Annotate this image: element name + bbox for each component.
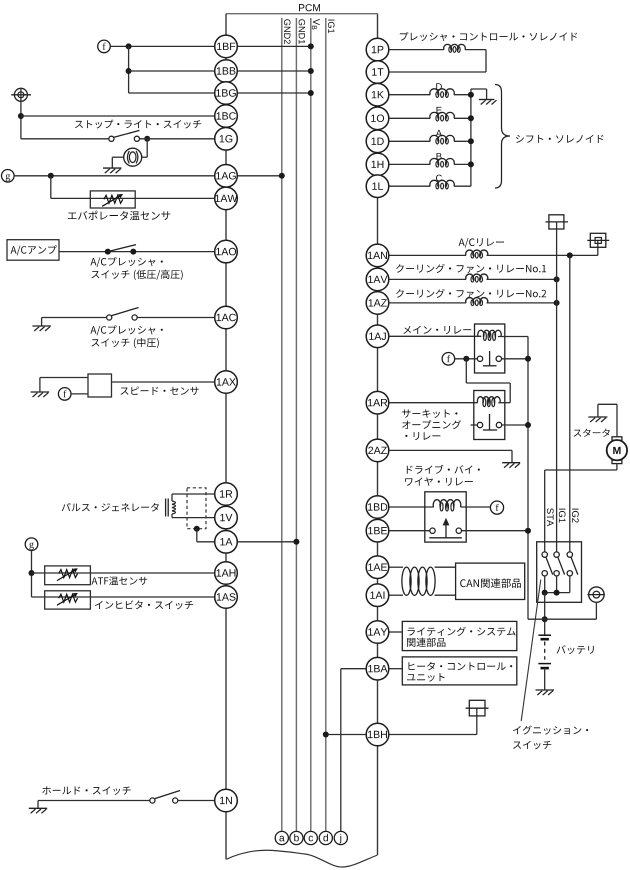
ignition switch common bus [545, 592, 570, 594]
battery positive terminal symbol [589, 587, 604, 602]
wire terminal down to 1BC/1G branch [20, 88, 22, 139]
junction on 1AG wire [48, 173, 54, 179]
junction battery plus node [542, 616, 548, 622]
inhibitor switch element [59, 594, 78, 602]
terminal 1BE [366, 519, 389, 542]
stop light switch contact right [134, 136, 139, 141]
label circuit opening relay line2 [402, 420, 461, 429]
label battery [557, 645, 594, 654]
battery cell 2 short plate [541, 667, 549, 670]
terminal 1AY [366, 621, 389, 644]
wire down to stop lamp [146, 139, 148, 157]
label cooling fan relay No.2 [396, 289, 546, 298]
circuit opening relay box [474, 391, 505, 440]
shift solenoid common wire [470, 89, 472, 186]
wire 1AI to twisted pair [389, 594, 403, 596]
terminal 1AJ [366, 325, 389, 348]
pressure control solenoid coil [444, 44, 466, 49]
terminal 1AC [215, 306, 238, 329]
bus label GND2 [284, 19, 291, 44]
A/C amplifier box [7, 240, 59, 261]
label circuit opening relay line1 [402, 409, 457, 418]
wire starter to STA [616, 464, 618, 470]
mid pressure switch blade (open) [111, 308, 138, 316]
DBW relay contact left [430, 528, 435, 533]
solenoid letter E [437, 107, 442, 114]
wire battery node horizontal [528, 618, 596, 620]
A/C relay coil [466, 250, 488, 255]
wire 1BA left branch to j [341, 668, 366, 670]
wire branch down to evaporator sensor [50, 176, 52, 199]
label starter [574, 429, 610, 437]
terminal 1AV [366, 268, 389, 291]
connector c [304, 831, 317, 844]
ignition switch blade [571, 557, 578, 574]
ground at starter [597, 404, 599, 417]
ATF temp sensor element [59, 570, 78, 578]
pulse generator shield (dashed) [187, 488, 206, 529]
wire battery to ground [544, 668, 546, 690]
label lighting line2 [407, 638, 445, 647]
wire 1BE to contact [389, 530, 430, 532]
wire ground to sensor box [40, 377, 88, 379]
label speed sensor [121, 386, 199, 395]
label STA [547, 508, 554, 526]
wire coil to f branch [498, 402, 510, 404]
speed sensor box [88, 374, 112, 397]
wire coil to f [461, 506, 491, 508]
terminal 1BD [366, 496, 389, 519]
shift solenoid coil C [430, 180, 454, 186]
terminal 1V [215, 506, 238, 529]
connector f at DBW relay [490, 501, 503, 514]
ignition switch pole top [554, 552, 559, 557]
pointer line to ignition switch [521, 580, 541, 721]
label pressure control solenoid [400, 32, 577, 41]
wire ground to hold switch [38, 800, 150, 802]
wire shift solenoid E [389, 117, 430, 119]
junction main relay-528 [525, 356, 531, 362]
ignition switch blade [558, 557, 565, 574]
circuit opening relay armature [489, 414, 491, 430]
wire contact to battery line [502, 358, 529, 360]
pulse generator coil [172, 501, 176, 514]
brace shift solenoid group [495, 85, 510, 189]
terminal 1BB [215, 60, 238, 83]
evaporator temp sensor box [90, 191, 135, 208]
wire to 1BB [129, 70, 215, 72]
label IG2 (switch) [572, 509, 579, 523]
wire pair to CAN box bottom [435, 594, 456, 596]
mid pressure switch contact left [107, 315, 112, 320]
battery cell 1 short plate [541, 638, 549, 641]
connector g (top) [2, 170, 15, 183]
label inhibitor switch [95, 600, 193, 609]
wire 1AV to cooling fan relay No.1 coil [389, 278, 466, 280]
wire 1AN to A/C relay coil [389, 254, 466, 256]
wire shift solenoid C [389, 185, 430, 187]
bus label GND1 [299, 19, 306, 44]
terminal 1BH [366, 723, 389, 746]
junction shift common [468, 161, 474, 167]
wire 1AG to GND2 bus [237, 175, 281, 177]
mid pressure switch contact right [132, 315, 137, 320]
terminal 1BF [215, 35, 238, 58]
circuit opening relay contact left [477, 422, 482, 427]
terminal 1BG [215, 82, 238, 105]
battery cell 1 long plate [538, 634, 551, 636]
label IG1 (switch) [559, 509, 566, 523]
ignition switch blade [546, 557, 553, 574]
label ignition switch line1 [513, 725, 588, 734]
terminal 1R [215, 483, 238, 506]
PCM module outline left edge [225, 14, 227, 860]
wire IG1 vertical [556, 222, 558, 552]
junction DBW-528 [525, 528, 531, 534]
wire ground to switch [42, 317, 107, 319]
connector (double square) battery feed [590, 233, 606, 247]
wire ground to starter motor [598, 403, 617, 405]
heater control unit box [402, 657, 517, 685]
PCM torn bottom edge (wavy cut line) [226, 850, 377, 867]
label A/C pressure switch line1 [90, 257, 162, 267]
bus label VB [312, 19, 320, 30]
wire contact to battery line [462, 530, 529, 532]
terminal 1AW [215, 187, 238, 210]
wire switch to 1N [178, 800, 215, 802]
wire 1BG to VB bus [237, 92, 310, 94]
wire switch to 1G [140, 138, 215, 140]
junction 1AG-GND2 [279, 173, 285, 179]
terminal 1AG [215, 165, 238, 188]
terminal 1G [215, 128, 238, 151]
bus line VB [310, 18, 312, 832]
terminal 1N [215, 789, 238, 812]
wire sensor to 1AX [112, 381, 215, 383]
label drive by wire relay line2 [405, 477, 473, 485]
wire to inhibitor switch box [32, 596, 215, 598]
wire branch down to 1BB/1BG [128, 46, 130, 93]
junction CO relay-528 [525, 422, 531, 428]
wire 2AZ to ground [389, 449, 512, 451]
wire terminal symbol to battery node [595, 602, 597, 619]
stop light switch blade (open) [114, 130, 140, 137]
hold switch contact right [173, 798, 178, 803]
main relay contact right [496, 356, 501, 361]
label stop light switch [75, 120, 201, 129]
main relay armature [489, 351, 491, 366]
label heater line1 [408, 662, 512, 671]
wire 1AR to circuit opening relay coil [389, 402, 478, 404]
ground at battery [536, 689, 555, 691]
junction at 1BC row [18, 113, 24, 119]
wire coil to battery line [498, 336, 528, 338]
wire 1BB to VB bus [237, 70, 310, 72]
wire shift solenoid D [389, 94, 430, 96]
terminal 1BC [215, 105, 238, 128]
wire A/C relay to IG2 node [487, 254, 598, 256]
label mid pressure switch line2 [91, 338, 158, 348]
A/C pressure switch (low/high) closed contacts [105, 249, 111, 255]
battery plus terminal symbol (double circle cross) [14, 88, 27, 101]
wire 1AE to twisted pair [389, 566, 403, 568]
wire g to 1AG [14, 175, 215, 177]
stop light switch contact left [109, 136, 114, 141]
ground at stop lamp [103, 167, 122, 169]
connector (square) ignition feed [549, 215, 564, 229]
terminal 1A [215, 531, 238, 554]
terminal 1AE [366, 556, 389, 579]
label heater line2 [407, 673, 445, 681]
junction f branch [463, 356, 469, 362]
wire to IG1 line [487, 302, 557, 304]
hold switch blade (open) [154, 791, 180, 799]
DBW relay arrow armature [445, 525, 447, 538]
connector (square) at 1BH [469, 700, 485, 716]
starter motor brush top [612, 437, 622, 441]
terminal 1AI [366, 584, 389, 607]
solenoid letter A [436, 130, 442, 137]
inhibitor switch box [45, 591, 91, 609]
wire STA vertical [544, 470, 546, 552]
label ignition switch line2 [513, 741, 551, 750]
junction 1BF-VB [308, 43, 314, 49]
shift solenoid coil B [430, 159, 454, 165]
wire to ATF sensor box [32, 572, 215, 574]
junction shift common [468, 115, 474, 121]
terminal 1AZ [366, 292, 389, 315]
wire 1P to coil [389, 49, 444, 51]
wire switch common to battery [544, 593, 546, 620]
terminal 1K [366, 83, 389, 106]
wire to IG1 line [487, 278, 557, 280]
label lighting line1 [408, 627, 516, 636]
ATF temp sensor box [45, 566, 91, 585]
junction after switch [144, 136, 150, 142]
terminal 2AZ [366, 439, 389, 462]
connector f at speed sensor [58, 388, 71, 401]
terminal 1AX [215, 371, 238, 394]
wire to 1BC [21, 115, 215, 117]
PCM module outline top edge [226, 13, 378, 15]
ignition switch pole bottom [567, 571, 572, 576]
connector a [275, 831, 288, 844]
bus line GND2 [281, 18, 283, 832]
wire g down to sensors [31, 551, 33, 598]
PCM label [299, 4, 320, 11]
terminal 1H [366, 153, 389, 176]
bus line GND1 [295, 18, 297, 832]
terminal 1AN [366, 244, 389, 267]
connector f (top left) [98, 40, 111, 53]
terminal 1P [366, 38, 389, 61]
circuit opening relay contact right [496, 422, 501, 427]
wire pair to CAN box top [435, 566, 456, 568]
label A/C pressure switch line2 [91, 270, 182, 280]
main relay box [475, 324, 505, 373]
label CAN related parts [460, 578, 521, 588]
junction on 1BB wire [126, 68, 132, 74]
label evaporator temp sensor [68, 211, 170, 220]
bus label IG1 [328, 20, 335, 34]
stub contact left [471, 424, 478, 426]
label A/C relay [459, 238, 504, 248]
wire A/C amp to switch [59, 251, 215, 253]
wire f to contact [455, 358, 478, 360]
terminal 1D [366, 130, 389, 153]
junction 1BG-VB [308, 90, 314, 96]
wire to 1BG [129, 92, 215, 94]
solenoid letter D [436, 83, 442, 90]
junction 1BB-VB [308, 68, 314, 74]
hold switch contact left [150, 798, 155, 803]
terminal 1AH [215, 562, 238, 585]
ignition switch pole bottom [554, 571, 559, 576]
drive by wire relay box [425, 492, 466, 542]
ignition switch pole stub [556, 576, 558, 593]
wire 1AZ to cooling fan relay No.2 coil [389, 302, 466, 304]
wire shift solenoid B [389, 163, 430, 165]
ignition switch box [537, 542, 582, 603]
wire coil top to 1R [171, 494, 173, 501]
connector g (lower) [25, 538, 38, 551]
ignition switch pole top [567, 552, 572, 557]
junction at ATF row [29, 570, 35, 576]
circuit opening relay coil [477, 397, 500, 403]
A/C pressure switch blade [108, 245, 136, 252]
ignition switch pole stub [569, 576, 571, 593]
shift solenoid coil D [430, 89, 454, 95]
wire shift solenoid A [389, 140, 430, 142]
terminal 1L [366, 175, 389, 198]
junction IG1-AZ [554, 300, 560, 306]
ground at mid pressure switch [41, 318, 43, 327]
junction 1A-GND1 [293, 539, 299, 545]
starter motor [607, 440, 627, 460]
battery feed line (528) [527, 337, 529, 620]
connector d [319, 831, 332, 844]
wire 1AY to lighting box [389, 631, 403, 633]
terminal 1BA [366, 657, 389, 680]
junction IG1-AV [554, 276, 560, 282]
junction shift common [468, 138, 474, 144]
label main relay [403, 326, 471, 334]
wire up to battery connector [597, 240, 599, 255]
label hold switch [42, 786, 130, 795]
wire contact to battery line [502, 424, 528, 426]
connector j [334, 831, 347, 844]
wire shield to 1A [196, 529, 198, 542]
cooling fan relay No.2 coil [466, 298, 488, 303]
wire IG2 vertical [569, 255, 571, 552]
wire lamp to ground [112, 156, 123, 158]
solenoid letter B [437, 153, 442, 160]
solenoid letter C [436, 175, 442, 182]
wire 1BD to DBW relay coil [389, 506, 434, 508]
ground at hold switch [37, 801, 39, 809]
lighting system related parts box [402, 621, 517, 650]
junction 1BH-IG1 [323, 732, 329, 738]
wire f branch to circuit opening coil [465, 359, 467, 383]
wire 1AJ to main relay [389, 335, 482, 337]
ground at 2AZ [502, 462, 520, 464]
terminal 1T [366, 61, 389, 84]
main relay contact left [477, 356, 482, 361]
terminal 1O [366, 107, 389, 130]
wire 1BF to VB bus [237, 45, 310, 47]
drive by wire relay coil [433, 500, 461, 507]
wire 1BA branch down to connector j [340, 669, 342, 832]
battery dashed middle [544, 642, 546, 660]
junction shift common [468, 92, 474, 98]
cooling fan relay No.1 coil [466, 274, 488, 279]
label shift solenoid [516, 135, 604, 143]
label circuit opening relay line3 [405, 432, 440, 440]
evaporator temp sensor element [104, 195, 123, 203]
ignition switch pole top [542, 552, 547, 557]
ignition switch pole bottom [542, 571, 547, 576]
stop lamp bulb [124, 148, 142, 166]
label cooling fan relay No.1 [396, 264, 546, 273]
connector b [290, 831, 303, 844]
wire 1BH to IG1 bus [326, 734, 366, 736]
wire battery node down [544, 619, 546, 635]
connector f at main relay [442, 353, 455, 366]
label drive by wire relay line1 [407, 465, 480, 474]
wire 1A to GND1 bus [237, 541, 296, 543]
shift solenoid coil E [430, 112, 454, 118]
wire switch to 1AC [137, 317, 215, 319]
terminal 1AO [215, 240, 238, 263]
starter motor brush bottom [612, 460, 622, 464]
wire to stop light switch [21, 138, 109, 140]
twisted pair loops [402, 567, 411, 595]
wire coil bottom to 1V [171, 514, 173, 518]
junction IG2 branch [567, 252, 573, 258]
wire coil loop back to 1T [465, 49, 486, 51]
main relay coil [478, 330, 501, 336]
terminal 1AR [366, 391, 389, 414]
CAN related parts box [456, 563, 525, 599]
shift common to ground [471, 88, 487, 90]
junction shield to 1A [194, 526, 200, 532]
ground at speed sensor [39, 378, 41, 393]
ground at shift solenoids [479, 99, 495, 101]
bus line IG1 [325, 18, 327, 832]
pulse generator core [165, 499, 167, 517]
shift solenoid coil A [430, 135, 454, 141]
wire f to sensor box [71, 393, 88, 395]
battery cell 2 long plate [538, 663, 551, 665]
PCM module outline right edge [377, 14, 379, 855]
terminal 1AS [215, 586, 238, 609]
wire 1BH to connector [389, 734, 477, 736]
label pulse generator [62, 503, 159, 511]
label mid pressure switch line1 [90, 325, 162, 335]
label A/C amp [11, 245, 57, 255]
wire f to 1BF [110, 45, 214, 47]
DBW relay contact right [456, 528, 461, 533]
wire 1BA to heater box [389, 668, 403, 670]
junction on 1BF wire [126, 43, 132, 49]
label ATF temp sensor [92, 576, 148, 585]
ignition switch pole stub [544, 576, 546, 593]
